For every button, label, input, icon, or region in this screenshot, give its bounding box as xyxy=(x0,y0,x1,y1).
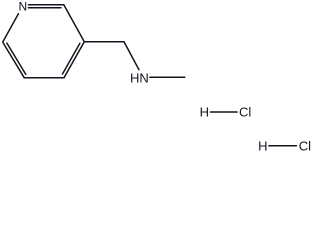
bond C3-CH2 (methylene substituent) xyxy=(84,41,124,43)
bond N1=C2 inner (double-bond second line) xyxy=(28,7,61,9)
bond C6-N1 (ring upper-left edge) xyxy=(3,14,19,42)
svg-text:Cl: Cl xyxy=(239,105,251,120)
svg-text:HN: HN xyxy=(130,71,149,86)
bond N1=C2 outer (ring top edge) xyxy=(28,4,63,6)
svg-text:H: H xyxy=(200,105,209,120)
bond C4-C5 (ring bottom edge) xyxy=(24,77,64,79)
svg-text:H: H xyxy=(258,139,267,154)
bond C5=C6 outer (ring lower-left edge) xyxy=(3,42,25,78)
svg-text:Cl: Cl xyxy=(299,139,311,154)
bond C2-C3 (ring upper-right edge) xyxy=(64,5,85,42)
bond H-Cl (second hydrochloride) xyxy=(269,145,297,147)
bond C3=C4 inner (double-bond second line) xyxy=(63,43,80,74)
bond C3=C4 outer (ring lower-right edge) xyxy=(64,42,84,78)
bond NH-CH3 (N-methyl) xyxy=(150,76,185,78)
bond H-Cl (first hydrochloride) xyxy=(210,111,237,113)
svg-text:N: N xyxy=(18,0,27,14)
bond C5=C6 inner (double-bond second line) xyxy=(7,43,26,74)
bond CH2-NH xyxy=(124,42,139,70)
